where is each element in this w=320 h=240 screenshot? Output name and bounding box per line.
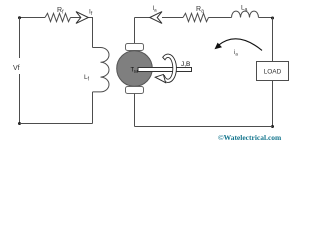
motor top brush bbox=[126, 44, 144, 51]
junction dot top-left bbox=[18, 16, 21, 19]
svg-text:Vf: Vf bbox=[13, 65, 20, 72]
wire left-loop top segment B bbox=[71, 17, 94, 19]
resistor Rf bbox=[45, 13, 71, 21]
wire right-loop bottom bbox=[135, 126, 273, 128]
junction dot bottom-right bbox=[271, 125, 274, 128]
wire right-loop top segment A bbox=[135, 17, 151, 19]
wire left-loop bottom bbox=[20, 123, 93, 125]
wire left vertical upper bbox=[19, 18, 21, 59]
motor shaft bbox=[138, 68, 192, 72]
motor rotor circle bbox=[117, 51, 153, 87]
current arrow If (chevron pointing right) bbox=[76, 12, 88, 24]
wire motor bottom lead bbox=[134, 94, 136, 127]
svg-text:LOAD: LOAD bbox=[264, 69, 282, 76]
inductor Lf bbox=[93, 48, 110, 92]
current arrow ia (chevron pointing left) bbox=[150, 12, 162, 24]
svg-text:J,B: J,B bbox=[181, 61, 190, 68]
inductor La bbox=[232, 11, 259, 17]
wire right-loop top segment B bbox=[162, 17, 183, 19]
svg-text:ia: ia bbox=[234, 50, 238, 57]
wire right vertical lower bbox=[272, 81, 274, 127]
arrowhead of ia arc bbox=[215, 43, 223, 50]
wire left-loop right vertical upper bbox=[92, 18, 94, 48]
junction dot top-right bbox=[271, 17, 274, 20]
motor bottom brush bbox=[126, 87, 144, 94]
wire right-loop top segment D bbox=[259, 17, 273, 19]
torque arrowhead bbox=[155, 75, 165, 83]
wire left-loop right vertical lower bbox=[92, 92, 94, 124]
wire right vertical upper bbox=[272, 18, 274, 62]
svg-text:Ia: Ia bbox=[153, 6, 158, 13]
wire left vertical lower bbox=[19, 74, 21, 124]
wire right-loop top segment C bbox=[209, 17, 232, 19]
svg-text:©Watelectrical.com: ©Watelectrical.com bbox=[218, 133, 282, 142]
junction dot bottom-left bbox=[18, 122, 21, 125]
resistor Ra bbox=[183, 13, 209, 21]
wire motor top lead bbox=[134, 18, 136, 45]
svg-text:TM: TM bbox=[131, 68, 139, 75]
torque ring arrow outer stroke bbox=[162, 54, 177, 82]
load box bbox=[257, 62, 289, 81]
wire left-loop top segment A bbox=[19, 17, 45, 19]
armature current arc ia bbox=[218, 39, 262, 51]
